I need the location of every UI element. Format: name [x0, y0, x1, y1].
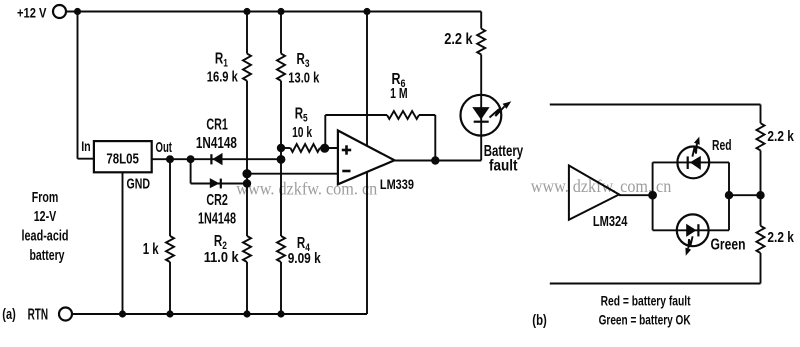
- svg-text:1N4148: 1N4148: [196, 135, 237, 152]
- svg-text:9.09 k: 9.09 k: [288, 250, 322, 267]
- svg-text:16.9 k: 16.9 k: [207, 69, 238, 86]
- svg-text:LM324: LM324: [593, 213, 628, 230]
- svg-text:LM339: LM339: [380, 176, 414, 192]
- svg-text:10 k: 10 k: [292, 124, 312, 141]
- svg-text:+12 V: +12 V: [17, 4, 47, 20]
- svg-text:2.2 k: 2.2 k: [767, 128, 794, 145]
- svg-text:RTN: RTN: [28, 306, 48, 323]
- svg-text:11.0 k: 11.0 k: [204, 249, 240, 266]
- svg-text:Red = battery fault: Red = battery fault: [601, 293, 691, 308]
- svg-text:lead-acid: lead-acid: [22, 227, 69, 244]
- svg-text:1 k: 1 k: [143, 241, 159, 258]
- svg-text:GND: GND: [127, 176, 151, 193]
- svg-text:12-V: 12-V: [34, 208, 57, 225]
- svg-text:2.2 k: 2.2 k: [767, 229, 794, 246]
- svg-text:CR2: CR2: [206, 192, 228, 209]
- svg-text:www. dzkfw. com. cn: www. dzkfw. com. cn: [531, 176, 672, 196]
- svg-text:13.0 k: 13.0 k: [288, 70, 319, 87]
- svg-text:From: From: [32, 189, 59, 206]
- svg-text:battery: battery: [30, 247, 65, 264]
- svg-text:1N4148: 1N4148: [198, 211, 236, 228]
- svg-text:Green: Green: [711, 236, 746, 253]
- svg-text:78L05: 78L05: [106, 151, 138, 168]
- svg-text:CR1: CR1: [206, 116, 228, 133]
- svg-text:(b): (b): [532, 312, 547, 329]
- svg-text:2.2 k: 2.2 k: [444, 31, 473, 48]
- svg-text:Out: Out: [156, 139, 173, 156]
- svg-text:fault: fault: [489, 157, 518, 174]
- svg-text:www. dzkfw. com. cn: www. dzkfw. com. cn: [236, 179, 377, 199]
- svg-text:Green = battery OK: Green = battery OK: [599, 313, 691, 328]
- svg-text:In: In: [81, 138, 91, 154]
- svg-text:Red: Red: [712, 138, 732, 154]
- svg-text:1 M: 1 M: [390, 85, 408, 102]
- svg-text:(a): (a): [2, 306, 16, 323]
